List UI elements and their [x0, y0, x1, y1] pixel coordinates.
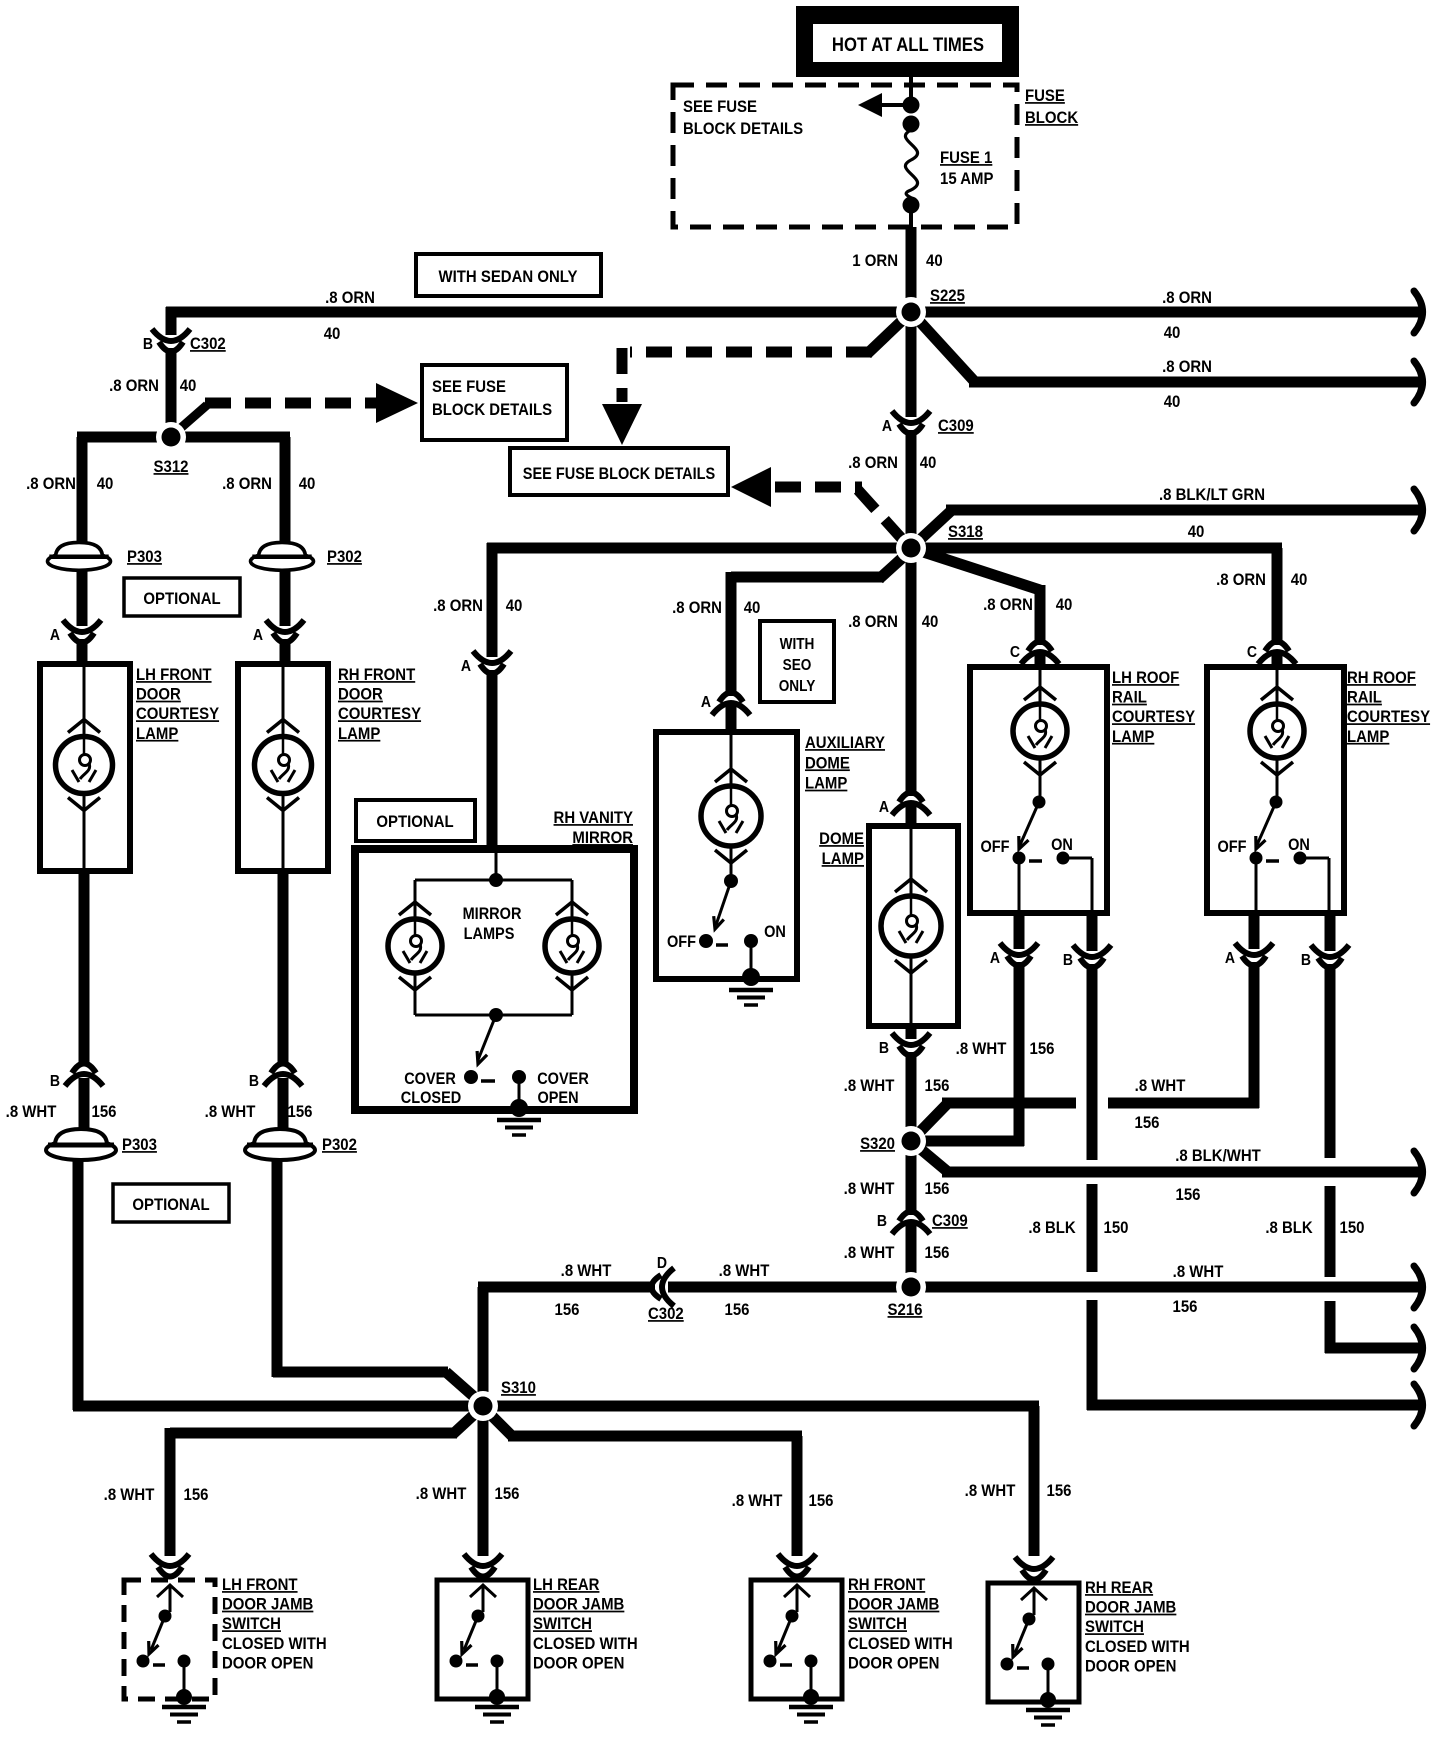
svg-text:.8 ORN: .8 ORN: [433, 597, 483, 615]
svg-text:.8 WHT: .8 WHT: [416, 1485, 467, 1503]
svg-text:.8 ORN: .8 ORN: [222, 475, 272, 493]
svg-text:.8 WHT: .8 WHT: [1135, 1077, 1186, 1095]
svg-text:A: A: [990, 949, 1000, 967]
svg-text:S310: S310: [501, 1379, 536, 1397]
svg-text:B: B: [1063, 951, 1073, 969]
svg-text:.8 WHT: .8 WHT: [956, 1040, 1007, 1058]
svg-text:LH REAR: LH REAR: [533, 1576, 600, 1594]
svg-text:.8 ORN: .8 ORN: [1162, 289, 1212, 307]
svg-text:40: 40: [1164, 393, 1181, 411]
svg-text:S320: S320: [860, 1135, 895, 1153]
svg-text:B: B: [879, 1039, 889, 1057]
svg-text:156: 156: [925, 1180, 950, 1198]
svg-text:OPTIONAL: OPTIONAL: [143, 590, 220, 608]
svg-text:.8 ORN: .8 ORN: [1162, 358, 1212, 376]
svg-text:156: 156: [1030, 1040, 1055, 1058]
svg-text:S216: S216: [888, 1301, 923, 1319]
svg-text:.8 ORN: .8 ORN: [26, 475, 76, 493]
svg-text:.8 ORN: .8 ORN: [109, 377, 159, 395]
svg-text:40: 40: [180, 377, 197, 395]
svg-text:DOOR OPEN: DOOR OPEN: [533, 1655, 624, 1673]
svg-text:SWITCH: SWITCH: [1085, 1618, 1144, 1636]
svg-text:C302: C302: [648, 1305, 684, 1323]
svg-text:A: A: [50, 626, 60, 644]
svg-text:COURTESY: COURTESY: [1112, 708, 1195, 726]
svg-text:DOOR JAMB: DOOR JAMB: [222, 1596, 313, 1614]
svg-text:LAMP: LAMP: [338, 725, 381, 743]
svg-text:OPTIONAL: OPTIONAL: [376, 813, 453, 831]
svg-text:SEO: SEO: [783, 657, 812, 674]
svg-text:40: 40: [926, 252, 943, 270]
svg-text:LH ROOF: LH ROOF: [1112, 669, 1179, 687]
svg-text:HOT AT ALL TIMES: HOT AT ALL TIMES: [832, 34, 984, 55]
svg-text:156: 156: [925, 1244, 950, 1262]
svg-text:SEE FUSE BLOCK DETAILS: SEE FUSE BLOCK DETAILS: [523, 465, 715, 483]
svg-text:RH FRONT: RH FRONT: [848, 1576, 925, 1594]
svg-text:LAMP: LAMP: [1112, 728, 1155, 746]
svg-text:DOOR JAMB: DOOR JAMB: [848, 1596, 939, 1614]
svg-text:OFF: OFF: [1217, 838, 1246, 856]
svg-text:40: 40: [97, 475, 114, 493]
svg-text:A: A: [879, 798, 889, 816]
svg-text:COVER: COVER: [404, 1070, 456, 1088]
svg-text:40: 40: [1188, 523, 1205, 541]
svg-text:RH FRONT: RH FRONT: [338, 666, 415, 684]
svg-text:AUXILIARY: AUXILIARY: [805, 734, 885, 752]
svg-text:P302: P302: [327, 548, 362, 566]
svg-text:40: 40: [1056, 596, 1073, 614]
svg-text:MIRROR: MIRROR: [463, 905, 522, 923]
svg-text:OFF: OFF: [667, 933, 696, 951]
svg-text:LAMPS: LAMPS: [464, 925, 515, 943]
svg-text:SWITCH: SWITCH: [848, 1615, 907, 1633]
svg-text:A: A: [882, 417, 892, 435]
svg-text:DOME: DOME: [819, 830, 864, 848]
svg-text:.8 ORN: .8 ORN: [325, 289, 375, 307]
svg-text:C309: C309: [932, 1212, 968, 1230]
svg-text:LAMP: LAMP: [805, 775, 848, 793]
svg-text:LAMP: LAMP: [136, 725, 179, 743]
svg-text:.8 BLK: .8 BLK: [1265, 1219, 1313, 1237]
svg-text:.8 WHT: .8 WHT: [1173, 1263, 1224, 1281]
svg-text:P303: P303: [127, 548, 162, 566]
svg-text:C309: C309: [938, 417, 974, 435]
svg-text:156: 156: [495, 1485, 520, 1503]
svg-text:A: A: [1225, 949, 1235, 967]
svg-text:40: 40: [324, 325, 341, 343]
svg-text:OPEN: OPEN: [537, 1089, 578, 1107]
svg-text:SWITCH: SWITCH: [222, 1615, 281, 1633]
svg-text:156: 156: [288, 1103, 313, 1121]
svg-text:ONLY: ONLY: [779, 678, 816, 695]
svg-text:DOOR JAMB: DOOR JAMB: [533, 1596, 624, 1614]
svg-text:D: D: [657, 1254, 667, 1272]
svg-text:.8 WHT: .8 WHT: [844, 1180, 895, 1198]
svg-text:B: B: [1301, 951, 1311, 969]
svg-text:15 AMP: 15 AMP: [940, 170, 994, 188]
svg-text:B: B: [249, 1072, 259, 1090]
svg-text:OPTIONAL: OPTIONAL: [132, 1196, 209, 1214]
svg-text:.8 BLK: .8 BLK: [1028, 1219, 1076, 1237]
svg-text:.8 WHT: .8 WHT: [719, 1262, 770, 1280]
svg-text:BLOCK DETAILS: BLOCK DETAILS: [683, 120, 803, 138]
svg-text:B: B: [50, 1072, 60, 1090]
svg-text:BLOCK: BLOCK: [1025, 109, 1079, 127]
svg-text:A: A: [461, 657, 471, 675]
svg-text:S312: S312: [154, 458, 189, 476]
svg-text:S225: S225: [930, 287, 965, 305]
svg-text:ON: ON: [1051, 836, 1073, 854]
svg-text:.8 BLK/LT GRN: .8 BLK/LT GRN: [1159, 486, 1265, 504]
svg-text:156: 156: [809, 1492, 834, 1510]
svg-text:40: 40: [922, 613, 939, 631]
svg-text:SEE FUSE: SEE FUSE: [683, 98, 757, 116]
svg-text:40: 40: [506, 597, 523, 615]
svg-text:.8 WHT: .8 WHT: [844, 1244, 895, 1262]
svg-text:156: 156: [92, 1103, 117, 1121]
svg-text:40: 40: [299, 475, 316, 493]
svg-text:RAIL: RAIL: [1347, 689, 1382, 707]
svg-text:40: 40: [920, 454, 937, 472]
svg-text:.8 ORN: .8 ORN: [672, 599, 722, 617]
svg-text:.8 WHT: .8 WHT: [6, 1103, 57, 1121]
svg-text:.8 WHT: .8 WHT: [561, 1262, 612, 1280]
svg-text:DOME: DOME: [805, 754, 850, 772]
svg-text:P303: P303: [122, 1136, 157, 1154]
svg-text:BLOCK DETAILS: BLOCK DETAILS: [432, 401, 552, 419]
svg-text:1 ORN: 1 ORN: [852, 252, 898, 270]
svg-text:DOOR OPEN: DOOR OPEN: [1085, 1658, 1176, 1676]
svg-text:FUSE 1: FUSE 1: [940, 149, 992, 167]
svg-text:156: 156: [925, 1077, 950, 1095]
svg-text:COURTESY: COURTESY: [1347, 708, 1430, 726]
svg-text:156: 156: [1047, 1482, 1072, 1500]
svg-text:CLOSED: CLOSED: [401, 1089, 461, 1107]
svg-text:.8 WHT: .8 WHT: [844, 1077, 895, 1095]
svg-text:156: 156: [184, 1486, 209, 1504]
svg-text:40: 40: [1291, 571, 1308, 589]
svg-text:DOOR OPEN: DOOR OPEN: [848, 1655, 939, 1673]
svg-text:SEE FUSE: SEE FUSE: [432, 378, 506, 396]
svg-text:RH VANITY: RH VANITY: [554, 809, 634, 827]
svg-text:CLOSED WITH: CLOSED WITH: [1085, 1638, 1190, 1656]
svg-text:OFF: OFF: [980, 838, 1009, 856]
svg-text:MIRROR: MIRROR: [572, 829, 633, 847]
svg-text:CLOSED WITH: CLOSED WITH: [848, 1635, 953, 1653]
svg-text:.8 BLK/WHT: .8 BLK/WHT: [1175, 1147, 1261, 1165]
svg-text:COVER: COVER: [537, 1070, 589, 1088]
svg-text:ON: ON: [764, 923, 786, 941]
svg-text:LAMP: LAMP: [1347, 728, 1390, 746]
svg-text:.8 ORN: .8 ORN: [848, 454, 898, 472]
svg-text:150: 150: [1340, 1219, 1365, 1237]
svg-text:40: 40: [744, 599, 761, 617]
svg-text:.8 WHT: .8 WHT: [965, 1482, 1016, 1500]
svg-text:.8 WHT: .8 WHT: [205, 1103, 256, 1121]
svg-text:A: A: [701, 693, 711, 711]
svg-text:SWITCH: SWITCH: [533, 1615, 592, 1633]
svg-text:B: B: [143, 335, 153, 353]
svg-text:COURTESY: COURTESY: [136, 705, 219, 723]
svg-text:156: 156: [1173, 1298, 1198, 1316]
svg-text:.8 ORN: .8 ORN: [848, 613, 898, 631]
svg-text:P302: P302: [322, 1136, 357, 1154]
svg-text:156: 156: [1135, 1114, 1160, 1132]
svg-text:DOOR: DOOR: [136, 686, 181, 704]
svg-text:LAMP: LAMP: [822, 850, 865, 868]
svg-text:.8 WHT: .8 WHT: [732, 1492, 783, 1510]
svg-text:40: 40: [1164, 324, 1181, 342]
svg-text:LH FRONT: LH FRONT: [136, 666, 212, 684]
svg-text:156: 156: [555, 1301, 580, 1319]
svg-text:150: 150: [1104, 1219, 1129, 1237]
svg-text:DOOR OPEN: DOOR OPEN: [222, 1655, 313, 1673]
svg-text:RH REAR: RH REAR: [1085, 1579, 1154, 1597]
svg-text:B: B: [877, 1212, 887, 1230]
svg-text:CLOSED WITH: CLOSED WITH: [222, 1635, 327, 1653]
svg-text:DOOR: DOOR: [338, 686, 383, 704]
svg-text:C: C: [1247, 643, 1257, 661]
svg-text:RAIL: RAIL: [1112, 689, 1147, 707]
svg-text:COURTESY: COURTESY: [338, 705, 421, 723]
svg-text:S318: S318: [948, 523, 983, 541]
svg-text:WITH: WITH: [780, 636, 815, 653]
svg-text:ON: ON: [1288, 836, 1310, 854]
svg-text:DOOR JAMB: DOOR JAMB: [1085, 1599, 1176, 1617]
svg-text:FUSE: FUSE: [1025, 87, 1065, 105]
svg-text:WITH SEDAN ONLY: WITH SEDAN ONLY: [439, 268, 578, 286]
svg-text:.8 WHT: .8 WHT: [104, 1486, 155, 1504]
svg-text:156: 156: [725, 1301, 750, 1319]
svg-text:A: A: [253, 626, 263, 644]
svg-text:C302: C302: [190, 335, 226, 353]
svg-text:CLOSED WITH: CLOSED WITH: [533, 1635, 638, 1653]
svg-text:C: C: [1010, 643, 1020, 661]
svg-text:LH FRONT: LH FRONT: [222, 1576, 298, 1594]
svg-text:.8 ORN: .8 ORN: [1216, 571, 1266, 589]
svg-text:.8 ORN: .8 ORN: [983, 596, 1033, 614]
svg-text:RH ROOF: RH ROOF: [1347, 669, 1416, 687]
svg-text:156: 156: [1176, 1186, 1201, 1204]
